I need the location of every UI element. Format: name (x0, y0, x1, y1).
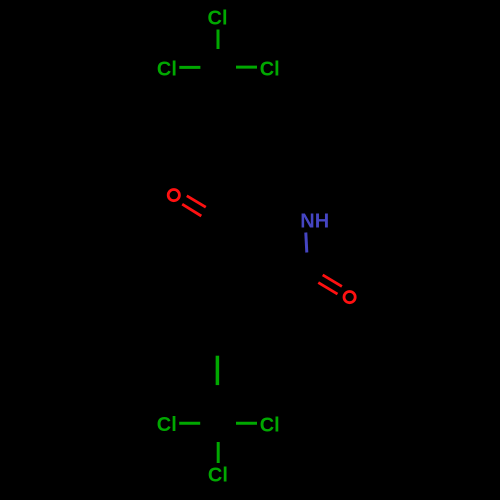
wire C=O ketone double bond lower red half (182, 204, 201, 216)
wire N-C bond blue half (306, 233, 307, 253)
oxygen O amide label (344, 292, 355, 303)
wire C-Cl bond bottom-left horizontal (green half) (179, 422, 200, 425)
svg-text:Cl: Cl (208, 8, 228, 30)
svg-text:Cl: Cl (208, 465, 228, 487)
svg-text:Cl: Cl (260, 58, 280, 80)
svg-text:Cl: Cl (157, 414, 177, 436)
wire C-Cl bond bottom vertical (green half) (217, 442, 220, 463)
wire C-Cl bond bottom-right horizontal (green half) (236, 422, 257, 425)
svg-text:NH: NH (300, 211, 329, 233)
wire ring-CCl3 vertical green segment (216, 356, 220, 385)
wire C=O ketone double bond upper red half (187, 196, 206, 207)
wire C=O amide double bond lower red half (318, 283, 337, 295)
wire C-Cl bond top vertical (green half) (217, 30, 220, 50)
wire C-Cl bond top-right horizontal (green half) (236, 66, 257, 69)
wire C=O amide double bond upper red half (323, 275, 342, 287)
svg-text:Cl: Cl (157, 59, 177, 81)
svg-text:Cl: Cl (260, 415, 280, 437)
wire C-Cl bond top-left horizontal (green half) (179, 66, 200, 69)
oxygen O ketone label (168, 190, 179, 201)
